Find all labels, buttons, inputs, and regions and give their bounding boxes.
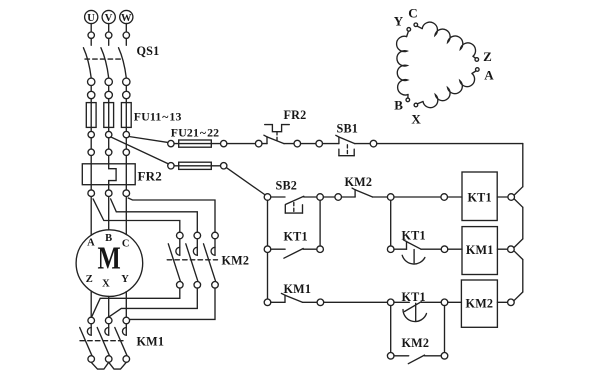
svg-text:B: B <box>394 98 403 113</box>
label KM1 (main contacts) <box>137 335 165 349</box>
wire junction down left <box>390 306 392 353</box>
label KM2 (main contacts) <box>222 254 250 268</box>
left rail row B-C <box>267 253 269 300</box>
QS1 lower terminals <box>105 78 112 102</box>
svg-text:Y: Y <box>121 274 129 285</box>
left rail row A-B <box>267 200 269 246</box>
svg-text:FU21~22: FU21~22 <box>171 126 219 140</box>
supply terminal U <box>85 10 98 45</box>
node below fuse <box>123 131 129 149</box>
motor terminal label B <box>105 233 112 244</box>
wire FR2 to SB1 <box>301 143 316 145</box>
svg-text:KT1: KT1 <box>402 290 426 304</box>
label SB2 <box>276 179 298 193</box>
wire U tap to KM2-1 <box>93 199 180 232</box>
node below fuse <box>106 131 112 149</box>
fuse FU22 <box>168 162 227 169</box>
winding terminal B <box>394 98 409 113</box>
contactor KM2 main contact 3 <box>204 232 219 288</box>
QS1 lower terminals <box>88 78 95 102</box>
contactor KM2 main contact 1 <box>168 232 183 288</box>
svg-text:KT1: KT1 <box>284 230 308 244</box>
right rail <box>514 144 523 301</box>
winding terminal Z <box>475 49 492 64</box>
label SB1 <box>337 122 359 136</box>
svg-text:KM1: KM1 <box>284 282 312 296</box>
wire V tap to KM2-2 <box>111 199 198 232</box>
svg-text:X: X <box>102 279 110 290</box>
svg-text:C: C <box>122 238 130 249</box>
svg-text:Z: Z <box>483 49 492 64</box>
node row C junction <box>387 299 394 306</box>
stop button SB1 <box>316 135 377 155</box>
svg-text:KM1: KM1 <box>137 335 165 349</box>
thermal relay FR2 <box>82 164 135 185</box>
delayed contact KT1 (NC, opens after delay) <box>387 240 447 264</box>
wire SB1 to right rail <box>377 143 523 145</box>
svg-text:KM2: KM2 <box>466 297 494 311</box>
wire KM1 aux to junction <box>324 301 388 303</box>
svg-text:FR2: FR2 <box>284 108 307 122</box>
winding coil Y-B <box>397 31 409 98</box>
svg-text:KM1: KM1 <box>466 243 494 257</box>
wire KM2-3 to node Y <box>130 288 215 319</box>
motor M circle <box>76 230 143 297</box>
auxiliary contact KM2 (NO) <box>335 188 394 200</box>
supply terminal V <box>102 10 115 45</box>
svg-text:V: V <box>105 13 113 24</box>
motor terminal label Y <box>121 274 129 285</box>
node row A junction <box>317 194 324 201</box>
wire tap V to FU22 <box>111 137 168 164</box>
node above FR2 <box>123 149 129 164</box>
wire motor Y down <box>125 292 127 318</box>
switch QS1 dashed link <box>85 58 123 60</box>
label QS1 <box>137 44 160 58</box>
svg-text:KM2: KM2 <box>222 254 250 268</box>
svg-text:QS1: QS1 <box>137 44 160 58</box>
contactor KM1 main contact 1 <box>80 317 95 362</box>
winding terminal Y <box>394 14 411 32</box>
motor terminal label X <box>102 279 110 290</box>
start button SB2 <box>264 194 317 213</box>
wire motor Z down <box>90 291 92 317</box>
wire W tap to KM2-3 <box>128 198 215 232</box>
svg-text:W: W <box>121 13 132 24</box>
svg-text:M: M <box>98 241 121 276</box>
switch QS1 blade 1 <box>83 48 91 78</box>
wire row A down to KT1 delayed NC <box>390 200 392 246</box>
winding terminal C <box>408 6 418 27</box>
delayed contact KT1 (NO, closes after delay) <box>394 299 448 322</box>
svg-text:B: B <box>105 233 112 244</box>
wire FU22 to SB2 <box>226 168 265 195</box>
node below fuse <box>88 131 94 149</box>
contactor coil KM1 <box>448 227 514 275</box>
node below FR2 <box>88 185 95 197</box>
fuse FU11 <box>86 103 96 132</box>
wire U to motor A <box>90 197 92 236</box>
auxiliary contact KM1 (NO) <box>264 293 324 305</box>
wire tap W to FU21 <box>129 137 168 143</box>
svg-text:Y: Y <box>394 14 404 29</box>
label KM2 (coil) <box>466 297 494 311</box>
label KM1 (coil) <box>466 243 494 257</box>
motor terminal label A <box>87 238 95 249</box>
switch QS1 blade 3 <box>119 48 127 78</box>
wire to KT1 coil <box>394 196 441 198</box>
label FU11~13 <box>134 110 182 124</box>
motor letter M <box>98 241 121 276</box>
label KM2 (seal contact) <box>402 336 430 350</box>
switch QS1 blade 2 <box>101 48 109 78</box>
thermal contact FR2 <box>255 125 300 147</box>
wire coil terminal down right <box>444 306 446 353</box>
auxiliary contact KM2 (NO, seal) <box>387 353 447 364</box>
label KT1 (coil) <box>467 191 491 205</box>
label KM1 (aux contact) <box>284 282 312 296</box>
wire SB2 junction to KM2 aux <box>323 196 335 198</box>
svg-text:KT1: KT1 <box>402 229 426 243</box>
label KM2 (aux contact) <box>345 175 373 189</box>
svg-text:FR2: FR2 <box>138 169 162 184</box>
time relay coil KT1 <box>441 172 515 221</box>
node below FR2 <box>105 185 112 197</box>
auxiliary contact KT1 (NO) <box>264 246 323 258</box>
svg-text:A: A <box>87 238 95 249</box>
svg-text:Z: Z <box>86 274 93 285</box>
wire W to motor C <box>125 197 127 235</box>
label FU21~22 <box>171 126 219 140</box>
contactor coil KM2 <box>448 280 514 327</box>
node above FR2 <box>88 149 94 164</box>
svg-text:SB2: SB2 <box>276 179 298 193</box>
fuse FU21 <box>168 140 227 147</box>
supply terminal W <box>120 10 133 45</box>
star point bus <box>91 362 126 369</box>
motor terminal label C <box>122 238 130 249</box>
svg-text:A: A <box>484 68 494 83</box>
svg-text:U: U <box>87 13 95 24</box>
fuse FU13 <box>121 103 131 132</box>
wire KT1 aux up to row A <box>319 200 321 246</box>
motor terminal label Z <box>86 274 93 285</box>
contactor KM2 main contact 2 <box>186 232 201 288</box>
svg-text:KT1: KT1 <box>467 191 491 205</box>
label KT1 (aux contact) <box>284 230 308 244</box>
svg-text:KM2: KM2 <box>345 175 373 189</box>
KM1 dashed link <box>80 340 124 342</box>
QS1 lower terminals <box>123 78 130 102</box>
KM2 dashed link <box>167 259 217 261</box>
svg-text:FU11~13: FU11~13 <box>134 110 182 124</box>
winding coil X-A <box>417 71 476 108</box>
wire V to motor B <box>108 197 110 230</box>
label FR2 (contact) <box>284 108 307 122</box>
label KT1 (delayed NC) <box>402 229 426 243</box>
winding terminal A <box>476 68 495 83</box>
svg-text:KM2: KM2 <box>402 336 430 350</box>
wire KM2-2 to node X <box>110 288 198 316</box>
svg-text:C: C <box>408 6 418 21</box>
svg-text:X: X <box>411 112 421 127</box>
node above FR2 <box>106 149 112 164</box>
label FR2 (heater) <box>138 169 162 184</box>
contactor KM1 main contact 2 <box>97 317 112 362</box>
fuse FU12 <box>104 103 114 132</box>
wire KM2-1 to node Z <box>92 288 180 316</box>
contactor KM1 main contact 3 <box>115 317 130 362</box>
node below FR2 <box>123 185 130 197</box>
wire FU21 to FR2 contact <box>227 143 256 145</box>
winding terminal X <box>411 103 421 126</box>
wire motor X down <box>108 296 110 317</box>
winding coil C-Z <box>417 22 475 58</box>
svg-text:SB1: SB1 <box>337 122 359 136</box>
label KT1 (delayed NO) <box>402 290 426 304</box>
